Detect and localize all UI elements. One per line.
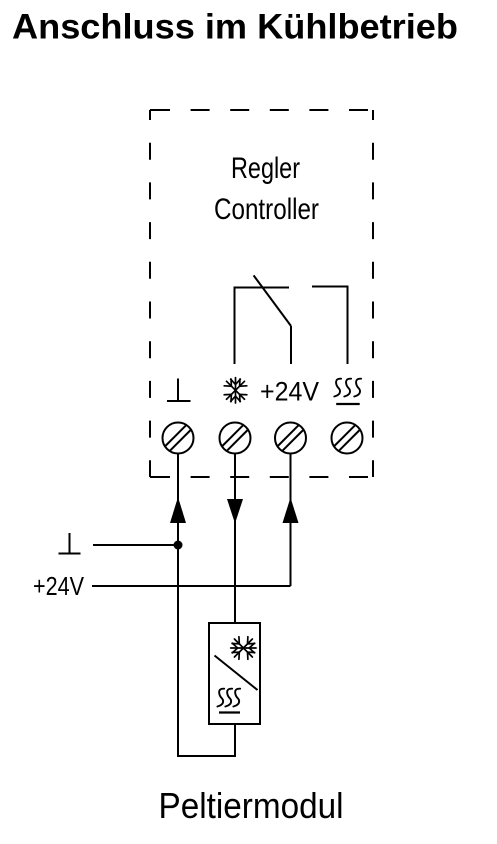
arrow up on wire 1: [170, 497, 186, 523]
terminal 4: [332, 423, 363, 454]
label Regler: [231, 152, 300, 185]
wire terminal1 down: [177, 454, 179, 757]
heating symbol in module: [217, 689, 240, 713]
peltier module body: [209, 623, 260, 724]
diagonal divider in module: [215, 656, 258, 691]
wire bottom horizontal: [177, 755, 236, 757]
svg-text:Peltiermodul: Peltiermodul: [159, 785, 344, 826]
wire terminal3 down: [290, 454, 292, 587]
wire terminal2 down to module: [234, 454, 236, 624]
svg-text:Regler: Regler: [231, 152, 300, 185]
wire module bottom down: [234, 724, 236, 756]
arrow up on wire 3: [283, 498, 299, 524]
terminal 1: [163, 423, 194, 454]
label +24V external: [33, 571, 85, 601]
svg-text:+24V: +24V: [260, 377, 319, 407]
wire ground to junction: [93, 544, 178, 546]
label Peltiermodul: [159, 785, 344, 826]
cooling snowflake symbol terminal 2: [224, 378, 247, 403]
svg-text:+24V: +24V: [33, 571, 85, 601]
wire +24V supply: [92, 585, 291, 587]
label +24V terminal 3: [260, 377, 319, 407]
terminal 3: [275, 423, 306, 454]
title Anschluss im Kühlbetrieb: [12, 8, 458, 47]
terminal 2: [220, 423, 251, 454]
svg-text:Controller: Controller: [214, 193, 319, 226]
controller dashed box: [150, 110, 373, 477]
heating symbol terminal 4: [334, 379, 361, 404]
label Controller: [214, 193, 319, 226]
snowflake in module: [231, 637, 256, 660]
arrow down on wire 2: [227, 499, 243, 524]
external ground symbol: [59, 533, 81, 554]
junction dot node A: [174, 541, 183, 550]
svg-text:Anschluss im Kühlbetrieb: Anschluss im Kühlbetrieb: [12, 8, 458, 47]
relay changeover contact S1: [235, 275, 348, 364]
ground symbol terminal 1: [167, 379, 191, 402]
